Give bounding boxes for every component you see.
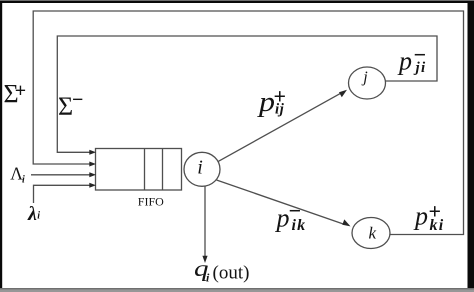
- svg-text:p: p: [275, 204, 290, 233]
- svg-text:FIFO: FIFO: [138, 195, 164, 209]
- svg-text:ki: ki: [430, 217, 445, 234]
- svg-text:i: i: [206, 271, 210, 285]
- svg-text:j: j: [361, 69, 368, 86]
- svg-text:p: p: [397, 47, 412, 76]
- svg-text:ij: ij: [275, 102, 285, 118]
- svg-text:+: +: [15, 80, 26, 102]
- svg-text:p: p: [257, 87, 275, 118]
- svg-text:Σ: Σ: [58, 92, 73, 121]
- svg-text:i: i: [197, 157, 203, 179]
- svg-text:−: −: [72, 89, 83, 111]
- svg-text:p: p: [413, 202, 428, 231]
- svg-text:ji: ji: [414, 60, 427, 76]
- svg-text:ik: ik: [292, 217, 307, 234]
- svg-text:i: i: [37, 211, 40, 222]
- svg-text:i: i: [22, 175, 25, 186]
- svg-text:λ: λ: [27, 203, 37, 225]
- svg-text:k: k: [369, 224, 377, 243]
- svg-text:(out): (out): [213, 262, 250, 283]
